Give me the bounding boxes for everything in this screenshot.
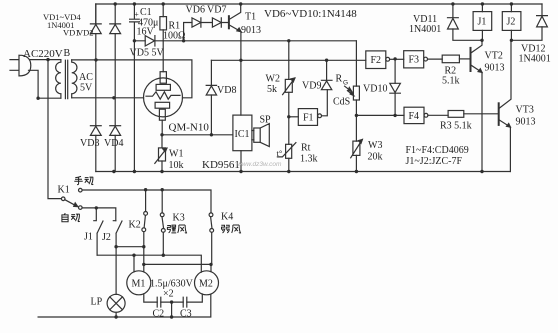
svg-text:J2: J2	[507, 17, 516, 28]
svg-text:J2: J2	[102, 232, 111, 243]
wire F4 out to R3	[428, 114, 448, 116]
svg-text:K1: K1	[58, 185, 70, 196]
wire VT3 emitter to ground bus	[509, 127, 511, 171]
capacitor C3	[183, 297, 187, 307]
motor M1	[127, 271, 151, 295]
transistor VT3	[498, 103, 500, 125]
capacitor C1	[130, 4, 140, 41]
svg-text:100Ω: 100Ω	[163, 31, 185, 42]
svg-text:VD6: VD6	[186, 5, 205, 16]
diode VD2	[110, 4, 121, 24]
svg-text:CdS: CdS	[333, 97, 350, 108]
inverter F1	[289, 116, 299, 118]
svg-text:VD7: VD7	[207, 5, 226, 16]
wire K2 bottom lead	[143, 232, 145, 265]
svg-text:K2: K2	[129, 220, 141, 231]
wire R3 to VT3 base	[464, 113, 498, 115]
svg-text:9013: 9013	[516, 117, 536, 128]
wire F3 out to R2	[428, 58, 443, 60]
wire VD4 anode to ground bus	[114, 135, 116, 171]
svg-text:AC: AC	[79, 72, 93, 83]
svg-text:VD9: VD9	[302, 81, 321, 92]
switch K3	[161, 190, 163, 213]
diode VD6	[192, 18, 201, 27]
wire VD6 branch	[184, 23, 192, 41]
diode VD11	[448, 4, 459, 18]
resistor R3	[448, 111, 464, 118]
svg-text:F3: F3	[409, 55, 420, 66]
transformer B primary	[56, 60, 61, 99]
svg-text:www.dz3w.com: www.dz3w.com	[237, 161, 282, 168]
wire line A (J2 to K2)	[116, 246, 144, 248]
wire F1 output to VD9	[322, 90, 328, 116]
svg-text:VD6~VD10:1N4148: VD6~VD10:1N4148	[264, 8, 357, 20]
relay contact J2	[113, 221, 122, 295]
svg-text:1N4001: 1N4001	[519, 54, 551, 65]
zener VD5	[145, 36, 154, 46]
diode VD4	[110, 125, 121, 127]
svg-text:M1: M1	[132, 279, 146, 290]
plug AC220V	[10, 55, 31, 76]
diode VD3	[90, 125, 101, 127]
svg-text:IC1: IC1	[235, 129, 250, 140]
svg-text:C1: C1	[140, 7, 152, 18]
potentiometer W3	[355, 115, 357, 171]
node F2 line junctions	[239, 59, 242, 62]
switch K4	[209, 213, 213, 217]
svg-text:B: B	[64, 48, 71, 59]
diode VD9	[321, 60, 332, 80]
node manual contact	[79, 188, 83, 192]
inverter F3	[404, 51, 424, 68]
wire F2 input line	[211, 59, 365, 61]
svg-text:VT3: VT3	[516, 105, 534, 116]
diode VD1	[90, 4, 101, 24]
svg-text:R: R	[336, 74, 343, 85]
label zidong (auto) glyphs	[62, 213, 80, 222]
lamp LP	[107, 294, 125, 312]
svg-text:AC220V: AC220V	[23, 48, 63, 60]
wire IC1 bottom to ground	[240, 151, 242, 172]
node regulated rail junctions	[133, 39, 136, 42]
diode VD12	[537, 4, 548, 16]
wire VD2 anode	[114, 34, 116, 126]
svg-text:W3: W3	[368, 140, 382, 151]
node auto contact	[79, 206, 83, 210]
svg-text:10k: 10k	[169, 160, 184, 171]
svg-text:F1: F1	[303, 113, 314, 124]
resistor R2	[442, 55, 459, 63]
inverter F4	[404, 107, 424, 123]
svg-text:F2: F2	[371, 55, 382, 66]
switch K1 common contact	[61, 197, 65, 201]
node IC1 input junctions	[160, 133, 163, 136]
wire capacitor row	[144, 294, 203, 317]
label shoudong (manual) glyphs	[74, 176, 93, 184]
speaker SP	[254, 128, 260, 142]
diode VD7	[212, 18, 221, 27]
svg-text:SP: SP	[260, 115, 272, 126]
wire ground bus	[96, 4, 511, 172]
IC U1 (IC1 KD9561)	[233, 115, 252, 151]
relay coil J2	[502, 12, 521, 31]
switch K2	[145, 190, 147, 212]
relay coil J1	[473, 12, 492, 31]
wire F2 out to F3 in	[390, 58, 404, 60]
svg-text:VT2: VT2	[485, 51, 503, 62]
svg-text:20k: 20k	[368, 152, 383, 163]
svg-text:16V: 16V	[137, 27, 155, 38]
svg-text:VD10: VD10	[363, 84, 387, 95]
svg-text:9013: 9013	[241, 25, 261, 36]
wire sensor bottom pin	[161, 120, 163, 135]
svg-text:C2: C2	[153, 309, 165, 320]
svg-text:W1: W1	[169, 149, 183, 160]
wire K4 bottom lead	[211, 232, 213, 264]
svg-text:1.3k: 1.3k	[300, 154, 318, 165]
transistor T1	[228, 16, 230, 28]
svg-text:QM-N10: QM-N10	[169, 122, 210, 134]
svg-text:5.1k: 5.1k	[442, 76, 460, 87]
node relay rail junctions	[480, 39, 483, 42]
svg-text:VD8: VD8	[217, 85, 236, 96]
wire VD3 anode to ground bus	[95, 135, 97, 171]
wire T1 emitter down to IC1	[240, 32, 242, 116]
photoresistor Rg CdS	[355, 41, 357, 116]
svg-text:J1: J1	[84, 232, 93, 243]
wire line B (J1 to motors)	[97, 255, 201, 272]
wire secondary bottom tap	[72, 97, 144, 99]
wire IC1 input line	[162, 134, 233, 136]
svg-text:K4: K4	[221, 212, 233, 223]
svg-text:R3 5.1k: R3 5.1k	[440, 121, 472, 132]
wire R2 to VT2 base	[459, 58, 470, 60]
svg-text:5V: 5V	[80, 83, 93, 94]
potentiometer W2	[288, 41, 290, 117]
wire plug bottom down	[29, 70, 61, 98]
capacitor C2	[157, 297, 161, 307]
svg-text:VD2: VD2	[77, 28, 94, 38]
svg-text:VD5 5V: VD5 5V	[130, 48, 165, 59]
label qiangfeng (strong wind) glyphs	[167, 225, 176, 233]
svg-text:C3: C3	[180, 309, 192, 320]
wire bottom bus	[38, 294, 211, 317]
thermistor Rt	[288, 117, 290, 172]
svg-text:J1~J2:JZC-7F: J1~J2:JZC-7F	[406, 156, 463, 167]
node ground bus junctions	[112, 170, 115, 173]
svg-text:J1: J1	[478, 17, 487, 28]
node F1 input junction	[287, 115, 290, 118]
wire regulated rail	[134, 40, 356, 42]
label ruofeng (weak wind) glyphs	[221, 225, 229, 233]
svg-text:G: G	[343, 80, 348, 87]
motor M2	[195, 271, 219, 295]
svg-text:F4: F4	[409, 111, 420, 122]
wire mains left rail	[48, 60, 61, 199]
wire manual line	[82, 190, 211, 213]
svg-text:VD3: VD3	[80, 138, 99, 149]
svg-text:t°: t°	[277, 148, 283, 158]
svg-text:T1: T1	[245, 12, 256, 23]
wire secondary top tap (AC line to sensor box)	[72, 60, 192, 98]
node lower section junctions	[144, 188, 147, 191]
wire VT2 emitter to ground bus	[481, 72, 483, 171]
svg-text:9013: 9013	[485, 63, 505, 74]
svg-text:×2: ×2	[163, 289, 174, 300]
potentiometer W1	[161, 135, 163, 172]
wire plug top to transformer	[30, 59, 61, 61]
transistor VT2	[470, 48, 472, 71]
transformer B secondary	[72, 60, 77, 98]
svg-text:M2: M2	[199, 279, 213, 290]
inverter F2	[366, 51, 386, 69]
resistor R1	[162, 4, 164, 41]
svg-text:F1~F4:CD4069: F1~F4:CD4069	[406, 145, 469, 156]
wire VD1 anode	[95, 34, 97, 126]
svg-text:5k: 5k	[267, 84, 277, 95]
wire VD8 anode	[210, 95, 212, 135]
svg-text:VD4: VD4	[104, 138, 123, 149]
node F4 line junctions	[355, 114, 358, 117]
svg-text:W2: W2	[266, 74, 280, 85]
relay contact J1	[94, 208, 103, 255]
svg-text:LP: LP	[91, 297, 103, 308]
wire auto line	[82, 208, 116, 221]
gas sensor QM-N10	[144, 78, 183, 117]
wire C1 negative down to ground	[133, 41, 135, 172]
transformer core	[65, 60, 67, 98]
diode VD10	[390, 59, 401, 116]
svg-text:1N4001: 1N4001	[409, 24, 441, 35]
wire K3 bottom lead	[162, 232, 164, 255]
wire top supply bus	[96, 3, 542, 5]
node dots top bus	[114, 2, 117, 5]
wire R1 bottom to sensor heater top	[162, 41, 164, 72]
wire F4 input line	[356, 114, 404, 116]
svg-text:KD9561: KD9561	[202, 159, 240, 171]
node mains junctions	[46, 58, 49, 61]
wire line C (to K4 and M2)	[144, 264, 211, 272]
diode VD8	[206, 60, 216, 85]
svg-text:Rt: Rt	[301, 143, 311, 154]
switch K1 blade	[65, 200, 77, 206]
svg-text:K3: K3	[173, 213, 185, 224]
